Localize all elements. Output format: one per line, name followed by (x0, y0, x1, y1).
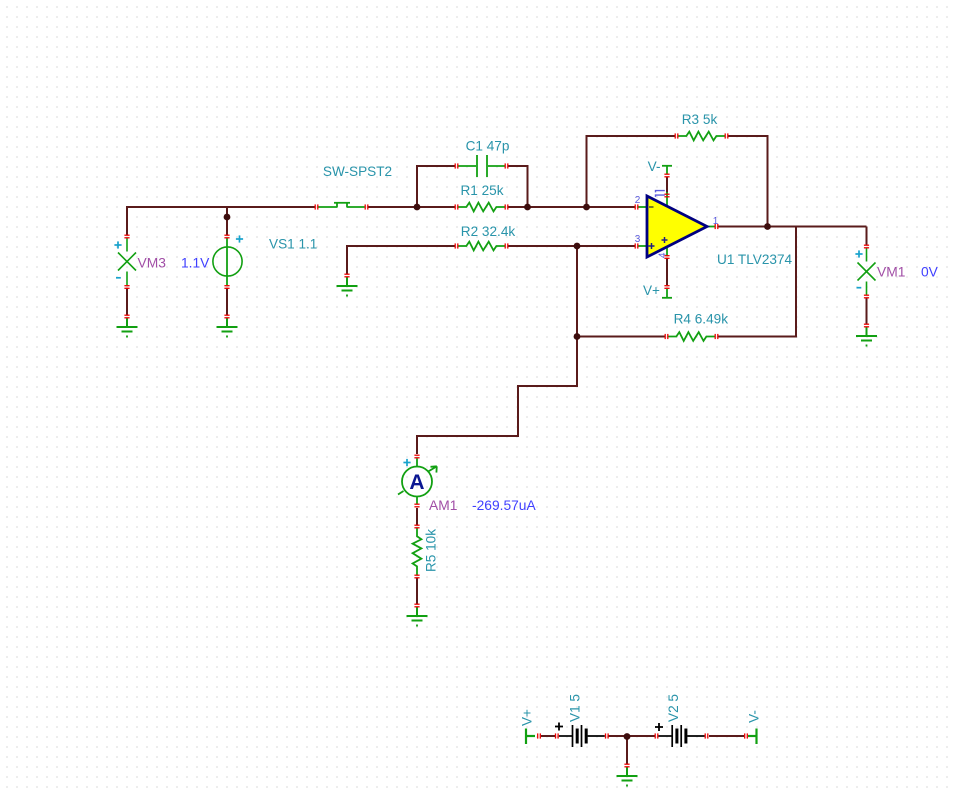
svg-text:AM1: AM1 (429, 498, 457, 513)
svg-text:R1 25k: R1 25k (460, 183, 503, 198)
svg-text:1: 1 (713, 216, 719, 227)
svg-text:R3 5k: R3 5k (682, 112, 718, 127)
svg-text:3: 3 (635, 234, 641, 245)
svg-text:VM1: VM1 (877, 265, 905, 280)
svg-text:V+: V+ (520, 709, 535, 726)
svg-text:1.1V: 1.1V (181, 256, 210, 271)
svg-text:4: 4 (658, 252, 669, 258)
svg-text:V+: V+ (643, 283, 660, 298)
svg-text:V-: V- (747, 710, 762, 723)
svg-text:U1 TLV2374: U1 TLV2374 (717, 252, 793, 267)
svg-text:V1 5: V1 5 (568, 694, 583, 722)
svg-text:VM3: VM3 (138, 256, 167, 271)
svg-text:V-: V- (648, 159, 661, 174)
svg-text:2: 2 (635, 195, 641, 206)
svg-text:C1 47p: C1 47p (466, 139, 510, 154)
svg-text:R2 32.4k: R2 32.4k (461, 224, 516, 239)
svg-text:V2 5: V2 5 (666, 694, 681, 722)
svg-text:0V: 0V (921, 265, 939, 280)
svg-text:-269.57uA: -269.57uA (472, 498, 536, 513)
svg-text:SW-SPST2: SW-SPST2 (323, 164, 392, 179)
svg-text:A: A (409, 471, 424, 494)
svg-text:R4 6.49k: R4 6.49k (674, 312, 729, 327)
svg-text:R5 10k: R5 10k (424, 529, 439, 572)
svg-text:VS1 1.1: VS1 1.1 (269, 237, 317, 252)
